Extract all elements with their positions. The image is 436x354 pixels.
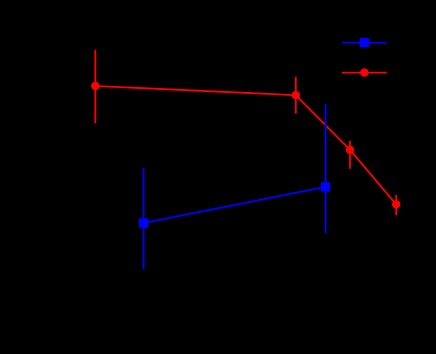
blue series line bbox=[144, 187, 326, 223]
red error bar 2 bbox=[295, 77, 297, 114]
legend blue entry marker bbox=[360, 38, 369, 47]
red marker 3 bbox=[346, 146, 354, 154]
red error bar 4 bbox=[395, 195, 397, 215]
blue marker 2 bbox=[321, 182, 330, 191]
red error bar 1 bbox=[94, 50, 96, 123]
red series line bbox=[95, 86, 396, 204]
red marker 4 bbox=[392, 200, 400, 208]
red marker 2 bbox=[292, 91, 300, 99]
legend red entry line bbox=[342, 72, 387, 74]
blue error bar 2 bbox=[325, 104, 327, 233]
legend blue entry line bbox=[342, 42, 387, 44]
legend red entry marker bbox=[360, 68, 368, 76]
blue marker 1 bbox=[139, 218, 148, 227]
blue error bar 1 bbox=[143, 168, 145, 269]
red error bar 3 bbox=[349, 141, 351, 169]
red marker 1 bbox=[91, 82, 99, 90]
